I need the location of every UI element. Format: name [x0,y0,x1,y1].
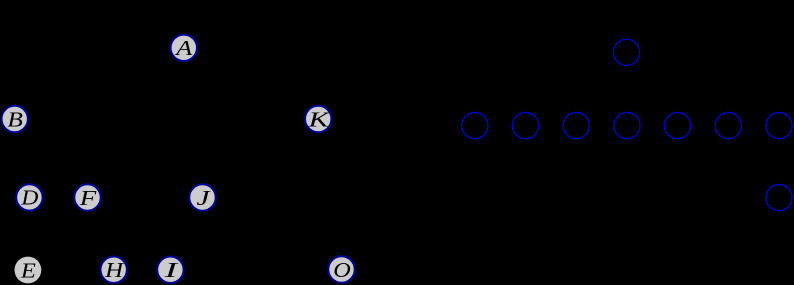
svg-text:O: O [333,258,351,282]
blue circle row 1 [462,113,488,139]
node H [101,257,127,283]
blue circle row 6 [715,113,741,139]
svg-text:B: B [7,107,23,131]
svg-text:K: K [307,107,330,131]
svg-text:I: I [163,258,179,282]
svg-text:H: H [104,258,125,282]
blue circle row 4 [614,113,640,139]
node K [305,106,331,132]
node E [15,257,42,284]
node B [2,106,28,132]
blue circle row 7 [766,113,792,139]
svg-text:F: F [78,186,96,210]
node A [171,35,197,61]
svg-text:E: E [20,258,36,282]
node F [74,184,100,210]
blue circle top [613,39,639,65]
node O [328,256,354,282]
blue circle row 3 [563,113,589,139]
node D [16,184,42,210]
node I [157,257,183,283]
node J [189,184,215,210]
blue circle lone [766,185,792,211]
blue circle row 5 [664,113,690,139]
svg-text:D: D [20,186,38,210]
blue circle row 2 [512,113,538,139]
svg-text:A: A [174,36,193,60]
